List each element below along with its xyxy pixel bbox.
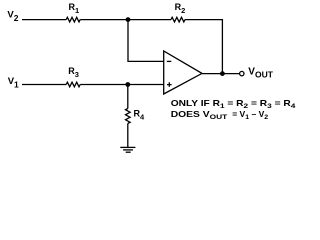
svg-text:ONLY IF R1 = R2 = R3 = R4: ONLY IF R1 = R2 = R3 = R4: [171, 99, 297, 110]
wire: [22, 19, 66, 21]
svg-text:DOES VOUT: DOES VOUT: [171, 110, 228, 121]
resistor R3: [66, 66, 80, 87]
ground: [120, 147, 135, 152]
svg-text:V1: V1: [8, 76, 19, 89]
resistor R1: [66, 2, 80, 22]
svg-text:R3: R3: [68, 66, 79, 79]
svg-text:V2: V2: [7, 10, 18, 23]
op-amp U1: [164, 51, 202, 94]
wire: [202, 73, 240, 75]
wire: [185, 20, 222, 74]
caption line 2: [171, 110, 228, 121]
svg-text:VOUT: VOUT: [248, 67, 273, 80]
svg-text:R4: R4: [134, 109, 146, 122]
svg-text:= V1 – V2: = V1 – V2: [232, 110, 268, 121]
node A junction dot: [126, 17, 131, 22]
wire: [127, 85, 129, 109]
wire: [22, 84, 66, 86]
wire: [80, 84, 163, 86]
svg-text:R1: R1: [69, 2, 80, 15]
caption line 1: [171, 99, 297, 110]
resistor R2: [171, 2, 185, 22]
node B junction dot: [125, 82, 130, 87]
output terminal circle: [240, 71, 244, 75]
wire: [128, 20, 164, 62]
node VOUT junction dot: [220, 71, 225, 76]
wire: [80, 19, 171, 21]
resistor R4: [126, 109, 146, 124]
wire: [127, 124, 129, 148]
svg-text:R2: R2: [175, 2, 186, 15]
